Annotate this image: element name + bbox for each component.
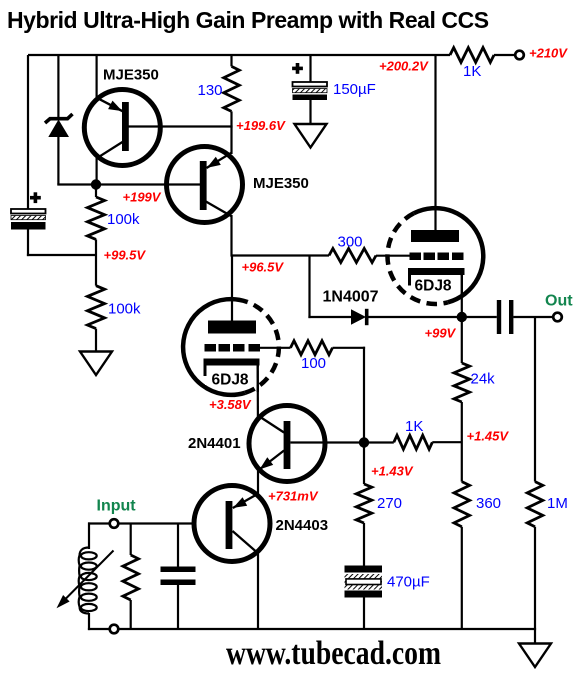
zener diode cathode bar (45, 114, 73, 123)
resistor 1M (527, 482, 543, 527)
wire 24k to +1.45V node (461, 402, 463, 482)
svg-text:+200.2V: +200.2V (379, 59, 429, 74)
wire Q4 collector to bottom rail (257, 553, 259, 630)
resistor 1K base (394, 435, 433, 449)
capacitor 150uF positive plate (293, 82, 328, 87)
wire battery column top (27, 55, 29, 209)
svg-text:+199V: +199V (123, 190, 162, 205)
capacitor 150uF hatched plate (293, 89, 328, 93)
transistor Q4 2N4403 (PNP) (194, 486, 270, 562)
wire input cap top (177, 524, 179, 567)
wire base node down to 270 (363, 443, 365, 485)
wire coil bottom (88, 613, 90, 630)
inductor variable arrow (60, 551, 114, 605)
resistor 360 (454, 482, 470, 527)
wire Q1 base (128, 125, 233, 127)
wire 100k junction +99.5V (95, 239, 97, 285)
svg-text:www.tubecad.com: www.tubecad.com (226, 635, 441, 672)
wire 150uF cap top (309, 55, 311, 82)
battery plus label (34, 192, 38, 203)
svg-text:150µF: 150µF (333, 81, 376, 98)
resistor 270 (356, 484, 372, 523)
svg-text:1K: 1K (405, 418, 423, 435)
wire input top (88, 522, 193, 524)
svg-text:+99V: +99V (425, 326, 457, 341)
wire U1 cathode to +99V node (461, 273, 463, 317)
resistor input shunt (123, 555, 139, 600)
resistor 24k (454, 363, 470, 402)
wire 130 to Q1 base node +199.6V (230, 111, 232, 154)
terminal +210V (515, 51, 524, 60)
wire 130 resistor top (230, 55, 232, 66)
transistor Q3 2N4401 (NPN) (249, 406, 325, 482)
capacitor 150uF negative plate (293, 95, 328, 101)
wire input shunt resistor bottom (130, 600, 132, 629)
terminal Input top (110, 519, 119, 528)
wire +96.5V net horizontal (232, 254, 330, 256)
wire bottom ground rail (88, 628, 536, 630)
capacitor 150uF plus label (296, 63, 300, 74)
svg-text:24k: 24k (471, 371, 496, 388)
svg-text:+210V: +210V (529, 46, 568, 61)
wire Q1 collector to node +199V (95, 157, 97, 185)
svg-text:2N4401: 2N4401 (188, 435, 241, 452)
svg-text:1N4007: 1N4007 (323, 288, 379, 305)
wire Q1 emitter (95, 55, 97, 99)
wire 1K CCS to +210V terminal (494, 54, 516, 56)
wire 270 to 470uF (363, 523, 365, 566)
junction base node (359, 437, 369, 447)
wire zener column top (57, 55, 59, 118)
junction node +199V (91, 179, 101, 189)
transistor Q1 MJE350 (PNP) (84, 90, 160, 166)
wire +96.5V node down to U2 plate (231, 256, 233, 321)
diode 1N4007 (351, 309, 366, 324)
wire Q2 base rail +199V net (57, 183, 200, 185)
capacitor 470uF plate bottom (345, 591, 383, 598)
transistor Q2 MJE350 (PNP) (167, 147, 243, 223)
svg-text:Input: Input (97, 498, 137, 515)
terminal Out (553, 313, 562, 322)
resistor 300 (329, 249, 376, 263)
svg-text:6DJ8: 6DJ8 (415, 278, 452, 295)
wire coil column (88, 522, 90, 549)
resistor 100k upper (87, 197, 104, 239)
wire 1M to bottom rail corner and ground (534, 527, 536, 644)
wire 100 resistor corner to base node (333, 347, 366, 349)
svg-text:470µF: 470µF (387, 574, 430, 591)
capacitor 470uF hatched body (345, 574, 383, 590)
wire corner 300-net down to diode (308, 256, 310, 319)
ground below lower 100k (80, 352, 112, 376)
wire 360 to bottom rail (461, 527, 463, 629)
capacitor input shunt (161, 567, 196, 573)
wire base node to 1K (364, 441, 394, 443)
resistor 130 (224, 66, 240, 111)
resistor 100 (291, 341, 333, 355)
wire zener to Q2 base rail (57, 137, 59, 185)
ground bottom right (519, 644, 551, 668)
wire +99V node to 24k (461, 317, 463, 363)
svg-text:MJE350: MJE350 (103, 67, 159, 84)
wire U2 cathode down to Q3 collector (257, 365, 259, 417)
battery hatched plate (11, 216, 46, 220)
svg-text:100k: 100k (107, 211, 140, 228)
svg-text:360: 360 (476, 495, 501, 512)
tube U2 6DJ8 (left half) (183, 299, 247, 395)
wire 150uF cap to ground (309, 100, 311, 124)
inductor input coil (79, 548, 89, 614)
wire U1 plate (434, 55, 436, 231)
junction node +99V (457, 312, 467, 322)
wire +99V node to output cap (462, 316, 497, 318)
wire battery bottom to +99.5V node (27, 230, 29, 257)
battery negative plate (11, 222, 46, 230)
svg-text:+96.5V: +96.5V (242, 260, 285, 275)
wire Q2 collector to +96.5V node (230, 215, 232, 257)
svg-text:130: 130 (198, 82, 223, 99)
wire 300 resistor to tube U1 grid (376, 255, 410, 257)
capacitor 470uF plate top (345, 566, 383, 573)
svg-text:1K: 1K (463, 63, 481, 80)
terminal Input bottom (110, 625, 119, 634)
svg-text:+3.58V: +3.58V (209, 397, 252, 412)
resistor 100k lower (87, 286, 104, 329)
wire lower 100k to ground (95, 329, 97, 352)
capacitor output coupling (497, 300, 501, 334)
wire Q3 emitter to Q4 emitter (257, 470, 259, 495)
wire Q3 base to node (291, 441, 365, 443)
wire input shunt resistor top (130, 524, 132, 556)
wire output cap to Out terminal (513, 316, 553, 318)
tube U1 6DJ8 (right half) (414, 208, 483, 302)
wire 1K to +1.45V node (432, 441, 462, 443)
resistor 1K CCS top (450, 48, 494, 63)
svg-text:+99.5V: +99.5V (104, 248, 147, 263)
svg-text:2N4403: 2N4403 (276, 517, 329, 534)
zener diode triangle (48, 120, 69, 138)
svg-text:Out: Out (545, 293, 573, 310)
wire top +200.2V rail (28, 54, 450, 56)
wire input cap bottom (177, 585, 179, 630)
wire output to 1M (534, 317, 536, 482)
svg-text:270: 270 (377, 495, 402, 512)
svg-text:6DJ8: 6DJ8 (212, 372, 249, 389)
battery positive plate (11, 209, 46, 214)
wire 470uF to bottom rail (363, 598, 365, 630)
svg-text:100: 100 (301, 355, 326, 372)
ground below 150uF (295, 124, 327, 148)
wire diode to +99V node (368, 316, 462, 318)
svg-text:Hybrid Ultra-High Gain Preamp: Hybrid Ultra-High Gain Preamp with Real … (7, 7, 489, 33)
svg-text:300: 300 (338, 234, 363, 251)
svg-text:+731mV: +731mV (268, 489, 319, 504)
svg-text:+1.43V: +1.43V (371, 464, 414, 479)
svg-text:+1.45V: +1.45V (467, 429, 510, 444)
svg-text:1M: 1M (547, 495, 568, 512)
wire node +199V to resistor 100k (95, 185, 97, 198)
wire U2 grid to 100 resistor (258, 347, 291, 349)
svg-text:100k: 100k (108, 301, 141, 318)
svg-text:MJE350: MJE350 (253, 175, 309, 192)
svg-text:+199.6V: +199.6V (236, 118, 286, 133)
